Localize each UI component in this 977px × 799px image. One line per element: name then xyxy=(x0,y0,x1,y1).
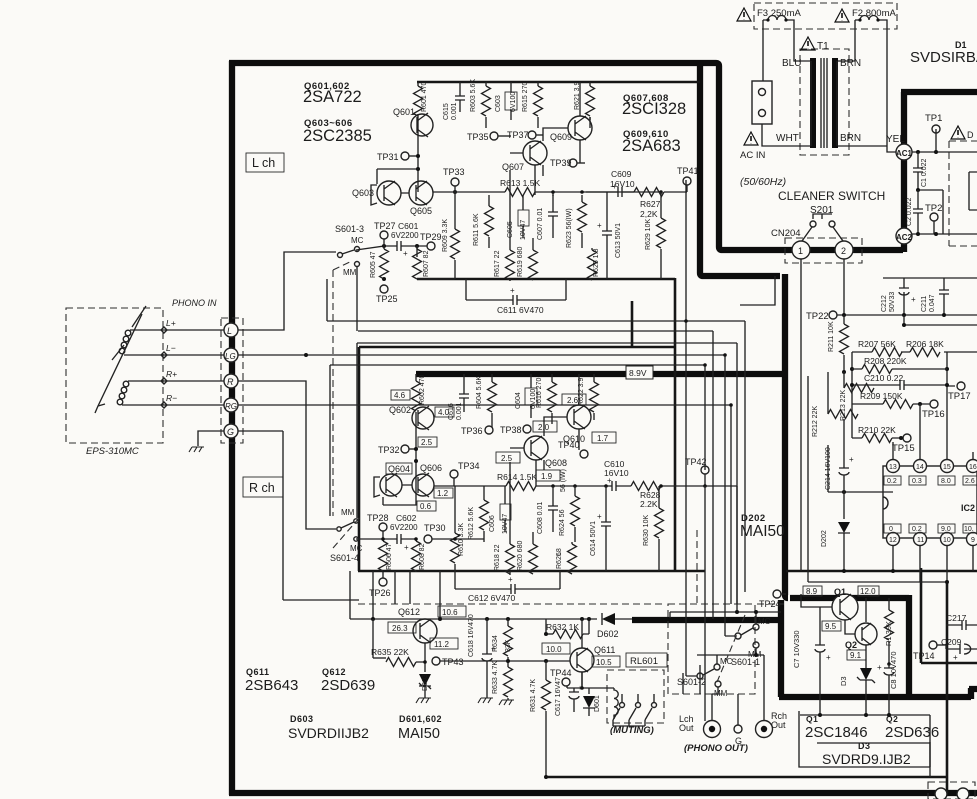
wire: C611 drops xyxy=(466,279,566,300)
svg-text:C608 0.01: C608 0.01 xyxy=(537,502,544,534)
wire: emitter row y=688 xyxy=(567,672,614,694)
resistor R608 82 xyxy=(415,539,417,541)
transistor Q610 xyxy=(567,405,591,429)
wire: Q604-Q606 link xyxy=(374,477,412,497)
warning triangle T1 xyxy=(801,37,815,50)
mechanical link dashes xyxy=(717,615,745,682)
svg-text:Q606: Q606 xyxy=(420,463,442,473)
TP22 test point xyxy=(829,311,837,319)
svg-text:C617 16V47: C617 16V47 xyxy=(555,677,562,716)
svg-text:D603: D603 xyxy=(290,714,314,724)
wire: R+ lead xyxy=(128,380,224,382)
svg-text:R603 5.6K: R603 5.6K xyxy=(470,79,477,112)
warning triangle F2 xyxy=(835,9,849,22)
svg-text:R ch: R ch xyxy=(249,481,275,495)
AC1 connector circle xyxy=(896,144,912,160)
wire: bundle line y=321 xyxy=(327,279,745,592)
svg-text:L ch: L ch xyxy=(252,156,275,170)
wire: Q606 to R614 row xyxy=(434,485,506,487)
wire: muting bus thin y=619 xyxy=(350,618,632,620)
svg-text:0.047: 0.047 xyxy=(929,294,936,312)
svg-text:BRN: BRN xyxy=(840,58,861,69)
wire: pins down leads xyxy=(893,546,973,583)
wire: row y=492 xyxy=(828,491,893,493)
svg-text:R608 82: R608 82 xyxy=(419,543,426,570)
svg-text:6V2200: 6V2200 xyxy=(390,523,418,532)
capacitor C613 50V1 xyxy=(602,192,612,279)
svg-text:TP17: TP17 xyxy=(948,391,971,402)
wire: TP32 row xyxy=(409,448,416,450)
svg-text:15: 15 xyxy=(943,464,951,471)
svg-text:10V47: 10V47 xyxy=(520,220,527,240)
svg-text:C615: C615 xyxy=(443,103,450,120)
svg-text:MC: MC xyxy=(351,236,364,245)
wire: medium step near D202 label xyxy=(740,276,775,305)
svg-text:SVDSIRBA: SVDSIRBA xyxy=(910,49,977,66)
wire: vertical x=737 lower xyxy=(736,486,738,604)
svg-text:9: 9 xyxy=(971,537,975,544)
wire: medium stub above R-ch block xyxy=(631,301,634,347)
svg-text:CLEANER SWITCH: CLEANER SWITCH xyxy=(778,189,885,203)
wire: vertical x=807 power feed xyxy=(808,376,947,582)
svg-text:TP39: TP39 xyxy=(550,158,572,168)
wire: G terminal ground bus xyxy=(238,431,359,600)
value box 4.6 xyxy=(391,390,410,400)
junction dots xyxy=(850,383,854,387)
wire: C612 drops xyxy=(455,571,560,589)
svg-text:TP1: TP1 xyxy=(925,113,942,124)
warning triangle D xyxy=(951,126,965,139)
svg-text:S601-4: S601-4 xyxy=(330,553,359,563)
transistor Q604 xyxy=(380,474,402,496)
junction dots R-ch emitter row xyxy=(381,537,385,541)
svg-text:2SCI328: 2SCI328 xyxy=(622,100,686,118)
svg-text:0: 0 xyxy=(889,526,893,533)
svg-text:C601: C601 xyxy=(398,221,419,231)
label: L ch box xyxy=(246,153,284,172)
transformer winding left xyxy=(810,61,812,146)
svg-text:D601: D601 xyxy=(594,695,601,712)
capacitor C603 6V100 xyxy=(505,92,517,110)
svg-text:R625 1.8: R625 1.8 xyxy=(593,248,600,277)
wire: drops from R-ch block bottom xyxy=(350,571,440,620)
wire: heavy inner outline vertical x=700 xyxy=(700,63,780,276)
IC2 box xyxy=(883,466,977,538)
wire: LG bus xyxy=(238,355,725,636)
wire: medium L-ch block bottom edge xyxy=(417,278,675,281)
svg-text:F3 250mA: F3 250mA xyxy=(757,8,801,19)
dashed link S601 column xyxy=(696,530,698,604)
svg-text:Out: Out xyxy=(771,720,786,730)
resistor R617 22 xyxy=(509,248,511,250)
svg-text:R618 22: R618 22 xyxy=(494,544,501,571)
resistor R210 22K xyxy=(852,437,905,439)
svg-text:Q612: Q612 xyxy=(322,667,346,677)
wire: bundle line y=343 xyxy=(357,343,737,612)
value box 1.9 xyxy=(536,470,560,481)
resistor R613 1.5K xyxy=(505,188,535,197)
svg-text:R606 47: R606 47 xyxy=(386,543,393,570)
value box 2.5b xyxy=(496,452,520,463)
wire: TP22 row y=315 xyxy=(837,314,977,316)
test point TP14 xyxy=(929,641,937,649)
TP1 test point xyxy=(932,125,940,133)
wire: TP2 lead xyxy=(912,221,977,234)
svg-text:R212 22K: R212 22K xyxy=(812,406,819,437)
IC2 pin 15 xyxy=(941,460,954,473)
diode D602 xyxy=(602,613,615,625)
relay coil RL601 xyxy=(614,688,618,719)
wire: Q611 collector/emitter xyxy=(581,619,583,688)
svg-text:SVDRD9.IJB2: SVDRD9.IJB2 xyxy=(822,751,911,767)
svg-text:C210 0.22: C210 0.22 xyxy=(864,373,903,383)
wire: medium shared right edge x=675 xyxy=(674,278,677,571)
transistor Q603 xyxy=(377,181,401,205)
dashed link S601-3 to S601-4 xyxy=(332,270,334,516)
svg-text:TP28: TP28 xyxy=(367,513,389,523)
resistor R626 1.8 xyxy=(571,542,573,544)
wire: F2 to BRN top xyxy=(838,20,855,61)
cartridge EPS-310MC dashed box xyxy=(66,308,163,443)
svg-text:R−: R− xyxy=(166,393,177,403)
wire: medium R-ch block bottom edge xyxy=(358,570,705,573)
resistor R607 82 xyxy=(416,246,418,249)
Q1/Q2 text outline box xyxy=(799,711,930,767)
wire: heavy top border of power block to right edge xyxy=(901,89,977,95)
wire: muting relay drive y=612 xyxy=(670,612,781,618)
wire: F3 left lead down xyxy=(762,20,764,81)
svg-text:2SD636: 2SD636 xyxy=(885,724,939,741)
wire: Q608/Q610 columns xyxy=(510,374,594,486)
svg-text:4.6: 4.6 xyxy=(394,391,406,400)
svg-text:R213 22K: R213 22K xyxy=(840,390,847,421)
ground symbol G terminal xyxy=(189,447,204,452)
wire: heavy left board border xyxy=(229,61,235,795)
svg-text:0.6: 0.6 xyxy=(420,502,432,511)
svg-text:MAI50: MAI50 xyxy=(740,523,785,540)
svg-text:D3: D3 xyxy=(839,676,848,686)
svg-text:26.3: 26.3 xyxy=(392,624,408,633)
wire: switch output y=655 xyxy=(697,655,764,720)
svg-text:C607 0.01: C607 0.01 xyxy=(537,208,544,240)
jack Lch Out xyxy=(704,721,721,738)
capacitor C614 50V1 xyxy=(601,486,611,571)
wire: heavy board outline top (phono board) xyxy=(229,63,903,250)
svg-text:C606: C606 xyxy=(489,515,496,532)
svg-text:C616: C616 xyxy=(448,403,455,420)
svg-text:R605 47: R605 47 xyxy=(370,251,377,278)
svg-text:TP35: TP35 xyxy=(467,132,489,142)
wire: medium R-ch block left edge xyxy=(358,347,361,571)
value box 11.2 xyxy=(430,638,458,649)
fuse F2 symbol xyxy=(855,16,883,20)
test point TP27 xyxy=(380,231,388,239)
junction dots row 315 xyxy=(842,313,846,317)
resistor R625 1.8 xyxy=(591,248,593,250)
resistor R209 150K xyxy=(852,403,930,405)
wire: S601 box to jacks xyxy=(683,665,738,705)
svg-text:Q609: Q609 xyxy=(550,132,572,142)
capacitor C617 16V47 xyxy=(569,692,579,712)
rectifier D1 box partial xyxy=(969,172,977,210)
value box 10.5 xyxy=(592,656,620,667)
resistor R602 470 xyxy=(415,374,417,381)
svg-text:1.9: 1.9 xyxy=(541,472,553,481)
resistor R603 5.6K xyxy=(485,82,487,86)
IC2 pin 12 xyxy=(887,533,900,546)
svg-text:R634: R634 xyxy=(492,635,499,652)
capacitor C609 xyxy=(609,187,634,197)
svg-text:TP41: TP41 xyxy=(677,166,699,176)
svg-text:R616 270: R616 270 xyxy=(536,378,543,408)
value box 9.5 xyxy=(822,621,841,631)
svg-text:TP14: TP14 xyxy=(913,651,935,661)
wire: heavy muting feed line xyxy=(632,617,782,623)
svg-text:TP26: TP26 xyxy=(369,588,391,598)
wire: long vertical x=686 xyxy=(685,180,687,676)
svg-text:R609 3.3K: R609 3.3K xyxy=(442,219,449,252)
svg-text:YEL: YEL xyxy=(886,134,905,145)
svg-text:R614 1.5K: R614 1.5K xyxy=(497,472,537,482)
svg-text:Q608: Q608 xyxy=(545,458,567,468)
fuse dashed box xyxy=(754,3,897,29)
test point TP38 xyxy=(523,425,531,433)
svg-text:MAI50: MAI50 xyxy=(398,726,440,742)
svg-text:16: 16 xyxy=(969,464,977,471)
value box 1.2 xyxy=(434,488,453,498)
test point TP24 xyxy=(773,590,781,598)
capacitor C211 0.047 xyxy=(939,278,949,315)
switch S601-4 xyxy=(337,527,341,531)
svg-text:+: + xyxy=(578,685,582,692)
test point TP25 xyxy=(383,284,385,286)
svg-text:R631 4.7K: R631 4.7K xyxy=(530,679,537,712)
svg-text:10.: 10. xyxy=(964,526,974,533)
svg-text:IC2: IC2 xyxy=(961,503,975,513)
junction AC1 row xyxy=(916,150,920,154)
capacitor C2 0.022 xyxy=(913,190,923,234)
diode D202 xyxy=(838,522,850,533)
svg-text:2SB643: 2SB643 xyxy=(245,677,298,694)
svg-text:MC: MC xyxy=(350,544,363,553)
svg-text:R623 56(IW): R623 56(IW) xyxy=(566,208,573,248)
svg-text:AC2: AC2 xyxy=(896,233,913,242)
wire: row y=325 xyxy=(904,315,977,325)
test point TP26 xyxy=(382,572,384,578)
IC2 pin 16 xyxy=(967,460,977,473)
svg-text:R630 10K: R630 10K xyxy=(643,515,650,546)
svg-text:11: 11 xyxy=(917,537,924,544)
capacitor C210 0.22 xyxy=(852,380,955,390)
svg-text:+: + xyxy=(404,543,409,552)
ground symbol R633 xyxy=(499,700,514,705)
value box 10.6 xyxy=(438,606,466,617)
svg-text:10: 10 xyxy=(943,537,951,544)
svg-text:1.2: 1.2 xyxy=(437,489,449,498)
resistor R207 56K xyxy=(872,348,902,357)
svg-text:TP22: TP22 xyxy=(806,311,829,322)
IC2 pin 9 xyxy=(967,533,977,546)
svg-text:R627: R627 xyxy=(640,199,661,209)
jack ground G xyxy=(734,725,742,733)
svg-text:1.7: 1.7 xyxy=(597,434,609,443)
wire: heavy AC feed riser to AC1/AC2 xyxy=(901,92,907,252)
svg-text:9.1: 9.1 xyxy=(850,651,862,660)
capacitor C612 6V470 xyxy=(455,584,560,594)
svg-text:TP33: TP33 xyxy=(443,167,465,177)
svg-text:AC IN: AC IN xyxy=(740,150,765,161)
svg-text:AC1: AC1 xyxy=(896,149,913,158)
value box 2.5 xyxy=(418,437,437,447)
wire: TP1 lead xyxy=(935,129,937,152)
svg-text:2: 2 xyxy=(841,246,846,256)
svg-text:C613 50V1: C613 50V1 xyxy=(615,223,622,258)
transistor Q609 xyxy=(568,116,592,140)
svg-text:C609: C609 xyxy=(611,169,632,179)
svg-text:R624 56: R624 56 xyxy=(559,509,566,536)
IC2 voltage boxes bottom row xyxy=(884,524,901,533)
resistor R624 56 xyxy=(574,486,576,496)
wire: R- lead xyxy=(122,404,224,406)
terminal L xyxy=(224,323,238,337)
test point TP39 xyxy=(569,159,577,167)
svg-text:+: + xyxy=(607,476,612,485)
svg-text:R210 22K: R210 22K xyxy=(858,425,896,435)
svg-text:R635 22K: R635 22K xyxy=(371,647,409,657)
svg-text:TP25: TP25 xyxy=(376,294,398,304)
svg-text:6V100: 6V100 xyxy=(510,92,517,112)
svg-text:Q611: Q611 xyxy=(594,645,615,655)
svg-text:C211: C211 xyxy=(921,296,928,312)
svg-text:R601 470: R601 470 xyxy=(421,82,428,112)
resistor R620 680 xyxy=(532,532,534,544)
wire: AC1 row to right xyxy=(912,151,977,153)
wire: S201 to CN204 pins xyxy=(802,227,843,241)
transistor Q612 xyxy=(413,619,437,643)
svg-text:+: + xyxy=(612,182,617,191)
switch S601-2 xyxy=(697,673,703,679)
warning triangle AC IN xyxy=(744,132,758,145)
CN204 pin 1 xyxy=(792,241,810,259)
svg-text:R604 5.6K: R604 5.6K xyxy=(476,376,483,409)
transformer T1 core bar right xyxy=(832,58,838,148)
resistor R213 22K xyxy=(843,372,845,388)
svg-text:0.3: 0.3 xyxy=(912,478,922,485)
svg-text:2SC2385: 2SC2385 xyxy=(303,127,372,145)
svg-text:TP44: TP44 xyxy=(550,668,572,678)
wire: relay to bottom xyxy=(613,720,645,726)
wire: G to ground xyxy=(198,431,224,446)
svg-text:14: 14 xyxy=(916,464,924,471)
IC2 voltage boxes top row xyxy=(884,476,901,485)
resistor R621 3.9 xyxy=(589,82,591,86)
svg-text:R629 10K: R629 10K xyxy=(645,219,652,250)
resistor R634 33K xyxy=(507,619,509,626)
value box 2.6 xyxy=(562,394,586,405)
svg-text:G: G xyxy=(227,427,234,437)
resistor R618 22 xyxy=(509,542,511,544)
transistor Q607 xyxy=(523,141,547,165)
relay RL601 dashed box xyxy=(607,670,664,723)
svg-text:2.6: 2.6 xyxy=(965,478,975,485)
wire: R209 junction down xyxy=(918,402,922,406)
junction dot muting bottom xyxy=(544,775,548,779)
svg-text:C1 0.022: C1 0.022 xyxy=(921,158,928,187)
junction dots xyxy=(850,367,854,371)
transistor Q601 xyxy=(411,114,433,136)
svg-text:R619 680: R619 680 xyxy=(517,247,524,277)
svg-text:2SA722: 2SA722 xyxy=(303,88,362,106)
svg-text:TP32: TP32 xyxy=(378,445,400,455)
wire: TP43 row y=662 xyxy=(440,660,570,662)
wire: long vertical x=705 xyxy=(704,365,706,721)
svg-text:TP24: TP24 xyxy=(759,599,781,609)
wire: heavy top edge of Q1 regulator box xyxy=(790,595,909,601)
svg-text:R209 150K: R209 150K xyxy=(860,391,903,401)
svg-text:MM: MM xyxy=(341,508,355,517)
wire: medium R-ch block top edge xyxy=(359,346,676,349)
svg-text:1: 1 xyxy=(798,246,803,256)
label: 8.9V rail box xyxy=(626,366,653,379)
svg-text:C612 6V470: C612 6V470 xyxy=(468,593,516,603)
CN204 dashed box xyxy=(785,238,862,263)
transistor Q1 xyxy=(832,594,858,620)
svg-text:C7 10V330: C7 10V330 xyxy=(792,630,801,668)
AC inlet connector xyxy=(752,81,772,124)
resistor R619 680 xyxy=(532,238,534,250)
wire: CN204 pin1 drop xyxy=(800,259,802,571)
value box 1.7 xyxy=(592,432,616,443)
svg-text:TP31: TP31 xyxy=(377,152,399,162)
TP17 test point xyxy=(957,382,965,390)
wire: vertical x=852 xyxy=(851,352,853,438)
wire: bundle line y=365 xyxy=(330,365,705,516)
label: R ch box xyxy=(243,477,283,497)
svg-text:T1: T1 xyxy=(817,41,829,52)
test point TP31 xyxy=(401,152,409,160)
RIGHTCOL xyxy=(806,278,977,583)
svg-text:Q2: Q2 xyxy=(845,640,857,650)
svg-text:Q602: Q602 xyxy=(389,405,411,415)
wire: RG bus xyxy=(238,405,731,604)
svg-text:9.0: 9.0 xyxy=(941,526,951,533)
capacitor C605 10V47 xyxy=(518,210,529,226)
svg-text:R602 470: R602 470 xyxy=(419,375,426,405)
resistor R604 5.6K xyxy=(491,374,493,382)
svg-text:8.9: 8.9 xyxy=(806,587,818,596)
IC2 pin 13 xyxy=(887,460,900,473)
capacitor C214 16V100 xyxy=(839,462,849,492)
connector diamonds xyxy=(161,327,167,408)
svg-text:G: G xyxy=(735,736,742,746)
resistor R208 220K xyxy=(852,368,947,370)
svg-text:Q612: Q612 xyxy=(398,607,420,617)
svg-text:TP42: TP42 xyxy=(685,457,707,467)
svg-text:D601,602: D601,602 xyxy=(399,714,442,724)
svg-text:TP40: TP40 xyxy=(558,440,580,450)
wire: heavy right-bottom riser x=946 xyxy=(946,583,949,793)
svg-text:9.5: 9.5 xyxy=(825,622,837,631)
svg-text:2,2K: 2,2K xyxy=(640,209,658,219)
svg-text:(50/60Hz): (50/60Hz) xyxy=(740,176,786,188)
svg-text:RL601: RL601 xyxy=(630,656,658,667)
resistor R612 5.6K xyxy=(483,486,485,500)
wire: heavy bottom rail y=697 xyxy=(779,694,971,700)
wire: heavy 8.9V rail xyxy=(416,371,788,377)
svg-text:12: 12 xyxy=(889,537,897,544)
switch S601-1 xyxy=(735,633,741,639)
value box 26.3 xyxy=(388,622,416,633)
